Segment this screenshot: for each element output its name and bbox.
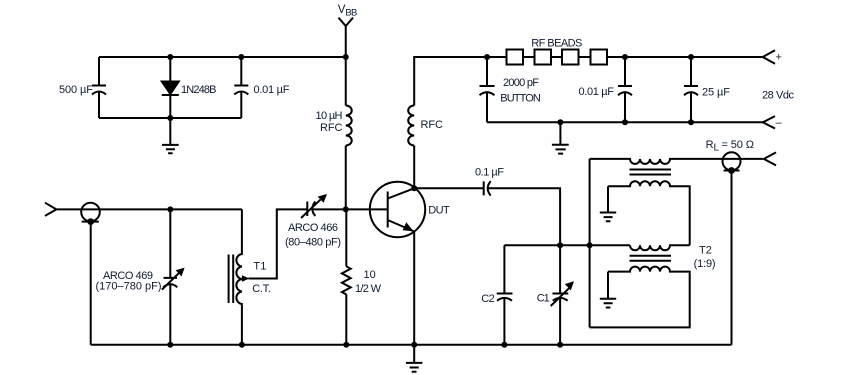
RL connector circle: [723, 152, 741, 170]
ground T2 lower: [600, 272, 616, 308]
svg-text:1/2 W: 1/2 W: [355, 283, 382, 295]
wire RFC to base node: [345, 146, 347, 210]
transistor emitter arrowhead: [403, 222, 414, 231]
svg-text:–: –: [776, 117, 783, 129]
node dot 25uF bottom: [688, 119, 694, 125]
svg-text:C.T.: C.T.: [252, 283, 270, 295]
node dot resistor bottom: [343, 342, 349, 348]
transformer T2 lower core: [630, 256, 672, 261]
node dot 0.01uF top: [238, 54, 244, 60]
svg-text:2000 pF: 2000 pF: [503, 77, 539, 89]
capacitor C 0.01uF left filter: [234, 86, 248, 95]
svg-text:C1: C1: [537, 293, 550, 305]
wire ARCO469 branch: [169, 209, 171, 344]
svg-text:RFC: RFC: [320, 122, 343, 134]
T1 center tap arrow: [242, 275, 250, 282]
terminal RL output: [764, 152, 776, 165]
wire base node to transistor: [346, 208, 388, 210]
node dot C2 bottom: [501, 342, 507, 348]
wire RFC top to filter rail: [414, 57, 506, 106]
svg-text:+: +: [776, 52, 782, 64]
svg-text:10 µH: 10 µH: [316, 110, 343, 122]
inductor collector RFC: [408, 106, 414, 146]
ground filter: [552, 122, 569, 153]
resistor 10 ohm 1/2W: [342, 266, 351, 294]
transistor DUT circle: [370, 182, 425, 237]
node dot VBB rail junction: [343, 54, 349, 60]
wire bottom main rail: [91, 344, 732, 346]
svg-text:BUTTON: BUTTON: [500, 93, 541, 105]
transformer T2 upper secondary: [608, 181, 690, 245]
wire input rail to T1: [56, 208, 242, 210]
wire 0.01uF branch: [240, 57, 242, 118]
transformer T1 winding: [236, 209, 242, 344]
inductor 10uH RFC: [346, 106, 352, 146]
terminal minus: [763, 116, 775, 128]
arrow ARCO 466: [301, 200, 320, 218]
wire T2 top to RL: [722, 158, 762, 160]
svg-text:= 50 Ω: = 50 Ω: [722, 139, 755, 151]
capacitor 0.01uF filter: [618, 86, 632, 95]
ground below diode: [162, 118, 179, 153]
node dot 2000pF top: [484, 54, 490, 60]
svg-text:C2: C2: [481, 293, 495, 305]
node dot emitter bottom: [411, 342, 417, 348]
svg-text:R: R: [706, 139, 714, 151]
capacitor 25uF: [684, 86, 698, 95]
wire left vertical 500uF branch: [98, 57, 100, 118]
wire filter rail beads to plus: [625, 56, 763, 58]
transformer T1 core lines: [229, 255, 234, 304]
RF bead 2: [535, 50, 552, 65]
node dot base junction: [343, 206, 349, 212]
transistor base bar: [387, 192, 389, 228]
svg-text:0.1 µF: 0.1 µF: [475, 167, 504, 179]
wire collector to 0.1uF: [414, 187, 484, 189]
ground T2 upper: [600, 186, 616, 221]
capacitor 2000pF button: [480, 86, 495, 95]
wire input down to bottom rail: [90, 222, 92, 345]
transistor emitter lead: [388, 220, 415, 232]
svg-text:10: 10: [364, 269, 376, 281]
node dot 25uF top: [688, 54, 694, 60]
node dot T2 left: [587, 242, 593, 248]
diode 1N248B: [162, 82, 179, 95]
node dot diode top: [167, 54, 173, 60]
capacitor 500uF: [92, 86, 106, 95]
wire filter bottom rail: [487, 121, 763, 123]
svg-text:ARCO 466: ARCO 466: [288, 222, 338, 234]
node dot T1 bottom: [239, 342, 245, 348]
ground emitter: [406, 345, 423, 372]
node dot 0.01uF filter top: [622, 54, 628, 60]
node dot diode bottom: [167, 115, 173, 121]
node dot collector: [411, 185, 417, 191]
wire base node to resistor: [345, 209, 347, 266]
node dot ARCO469 top: [167, 206, 173, 212]
wire C2 C1 node rail: [504, 244, 630, 246]
node dot RL: [728, 167, 735, 174]
wire 25uF branch: [690, 57, 692, 122]
transformer T2 upper core: [630, 170, 672, 175]
transformer T2 lower secondary: [590, 267, 690, 328]
RF bead 3: [562, 50, 579, 65]
capacitor C2: [497, 245, 513, 344]
svg-text:RFC: RFC: [421, 119, 444, 131]
wire VBB vertical to RFC: [345, 26, 347, 106]
capacitor ARCO 469 variable: [163, 278, 177, 287]
arrow C1: [551, 288, 570, 306]
terminal plus: [763, 50, 775, 63]
node dot input shield: [87, 218, 94, 225]
capacitor ARCO 466 variable: [307, 202, 315, 217]
svg-text:0.01 µF: 0.01 µF: [579, 86, 615, 98]
RF bead 1: [507, 50, 524, 65]
wire bottom rail left filter: [99, 117, 241, 119]
wire 2000pF branch: [486, 57, 488, 122]
wire 0.1uF to C1 node: [488, 188, 560, 245]
svg-text:T1: T1: [253, 261, 266, 273]
svg-text:BB: BB: [345, 8, 357, 19]
input connector shield line: [82, 221, 99, 223]
svg-text:DUT: DUT: [428, 205, 450, 217]
svg-text:25 µF: 25 µF: [702, 87, 730, 99]
node dot ARCO469 bottom: [167, 342, 173, 348]
svg-text:L: L: [714, 143, 720, 154]
arrow ARCO 469: [162, 272, 180, 290]
wire ARCO466 to base node: [313, 208, 346, 210]
input connector circle: [81, 203, 100, 222]
svg-text:T2: T2: [699, 245, 712, 257]
capacitor 0.1uF: [484, 181, 491, 195]
wire center tap to ARCO466: [249, 209, 308, 278]
wire T2 left vertical: [589, 159, 591, 328]
capacitor C1 variable: [552, 245, 568, 344]
svg-text:1N248B: 1N248B: [181, 84, 217, 96]
wire emitter vertical: [413, 232, 415, 345]
transformer T2 upper primary: [590, 159, 723, 164]
svg-text:(170–780 pF): (170–780 pF): [96, 281, 162, 293]
RL shield line: [724, 170, 740, 172]
node dot filter ground: [557, 119, 563, 125]
node dot 0.01uF filter bottom: [622, 119, 628, 125]
svg-text:RF BEADS: RF BEADS: [531, 38, 582, 50]
svg-text:500 µF: 500 µF: [59, 84, 93, 96]
node dot C1 top: [557, 242, 563, 248]
wire 0.01uF filter branch: [624, 57, 626, 122]
svg-text:(1:9): (1:9): [694, 258, 716, 270]
wire diode branch: [169, 57, 171, 118]
svg-text:(80–480 pF): (80–480 pF): [285, 237, 341, 249]
wire bead gaps: [523, 56, 625, 58]
transformer T2 lower primary: [630, 245, 690, 250]
wire top rail left filter: [99, 56, 346, 58]
input connector arrow: [45, 203, 56, 216]
node dot C1 bottom: [557, 342, 563, 348]
wire resistor to bottom rail: [345, 294, 347, 345]
svg-text:0.01 µF: 0.01 µF: [254, 84, 290, 96]
svg-text:28 Vdc: 28 Vdc: [762, 90, 795, 102]
RF bead 4: [591, 50, 608, 65]
wire collector vertical: [413, 146, 415, 189]
VBB terminal symbol: [339, 18, 354, 26]
transistor collector lead: [388, 188, 415, 198]
wire RL down to bottom rail: [731, 171, 733, 345]
